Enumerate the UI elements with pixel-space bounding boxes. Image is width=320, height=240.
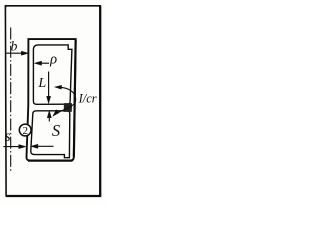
svg-text:ρ: ρ — [49, 52, 57, 68]
svg-text:L: L — [37, 76, 46, 91]
shelf-to-wall joint blob — [65, 104, 72, 111]
shelf top thickness arrow (down) — [47, 72, 51, 104]
svg-text:b: b — [11, 38, 18, 53]
svg-text:S: S — [52, 121, 60, 140]
svg-text:2: 2 — [23, 125, 29, 137]
part callout circle 2 — [19, 124, 31, 136]
box inner contour upper cell — [33, 45, 72, 104]
dimension s arrow right — [3, 145, 26, 149]
box inner contour lower cell — [31, 111, 70, 158]
box outer bottom/right overdraw — [28, 40, 76, 161]
dimension s arrow left — [31, 144, 54, 148]
dimension b arrow — [6, 51, 29, 55]
svg-text:I/cr: I/cr — [78, 92, 97, 106]
border frame — [5, 6, 100, 196]
centerline (dash-dot axis) — [10, 28, 12, 173]
curved double arrow (I/cr leader) — [53, 85, 76, 116]
border frame right/bottom thicker — [6, 6, 100, 196]
dimension p arrow — [34, 61, 49, 65]
svg-text:s: s — [5, 128, 11, 145]
box outer contour — [26, 39, 75, 160]
shelf bottom thickness arrow (up) — [47, 110, 51, 121]
